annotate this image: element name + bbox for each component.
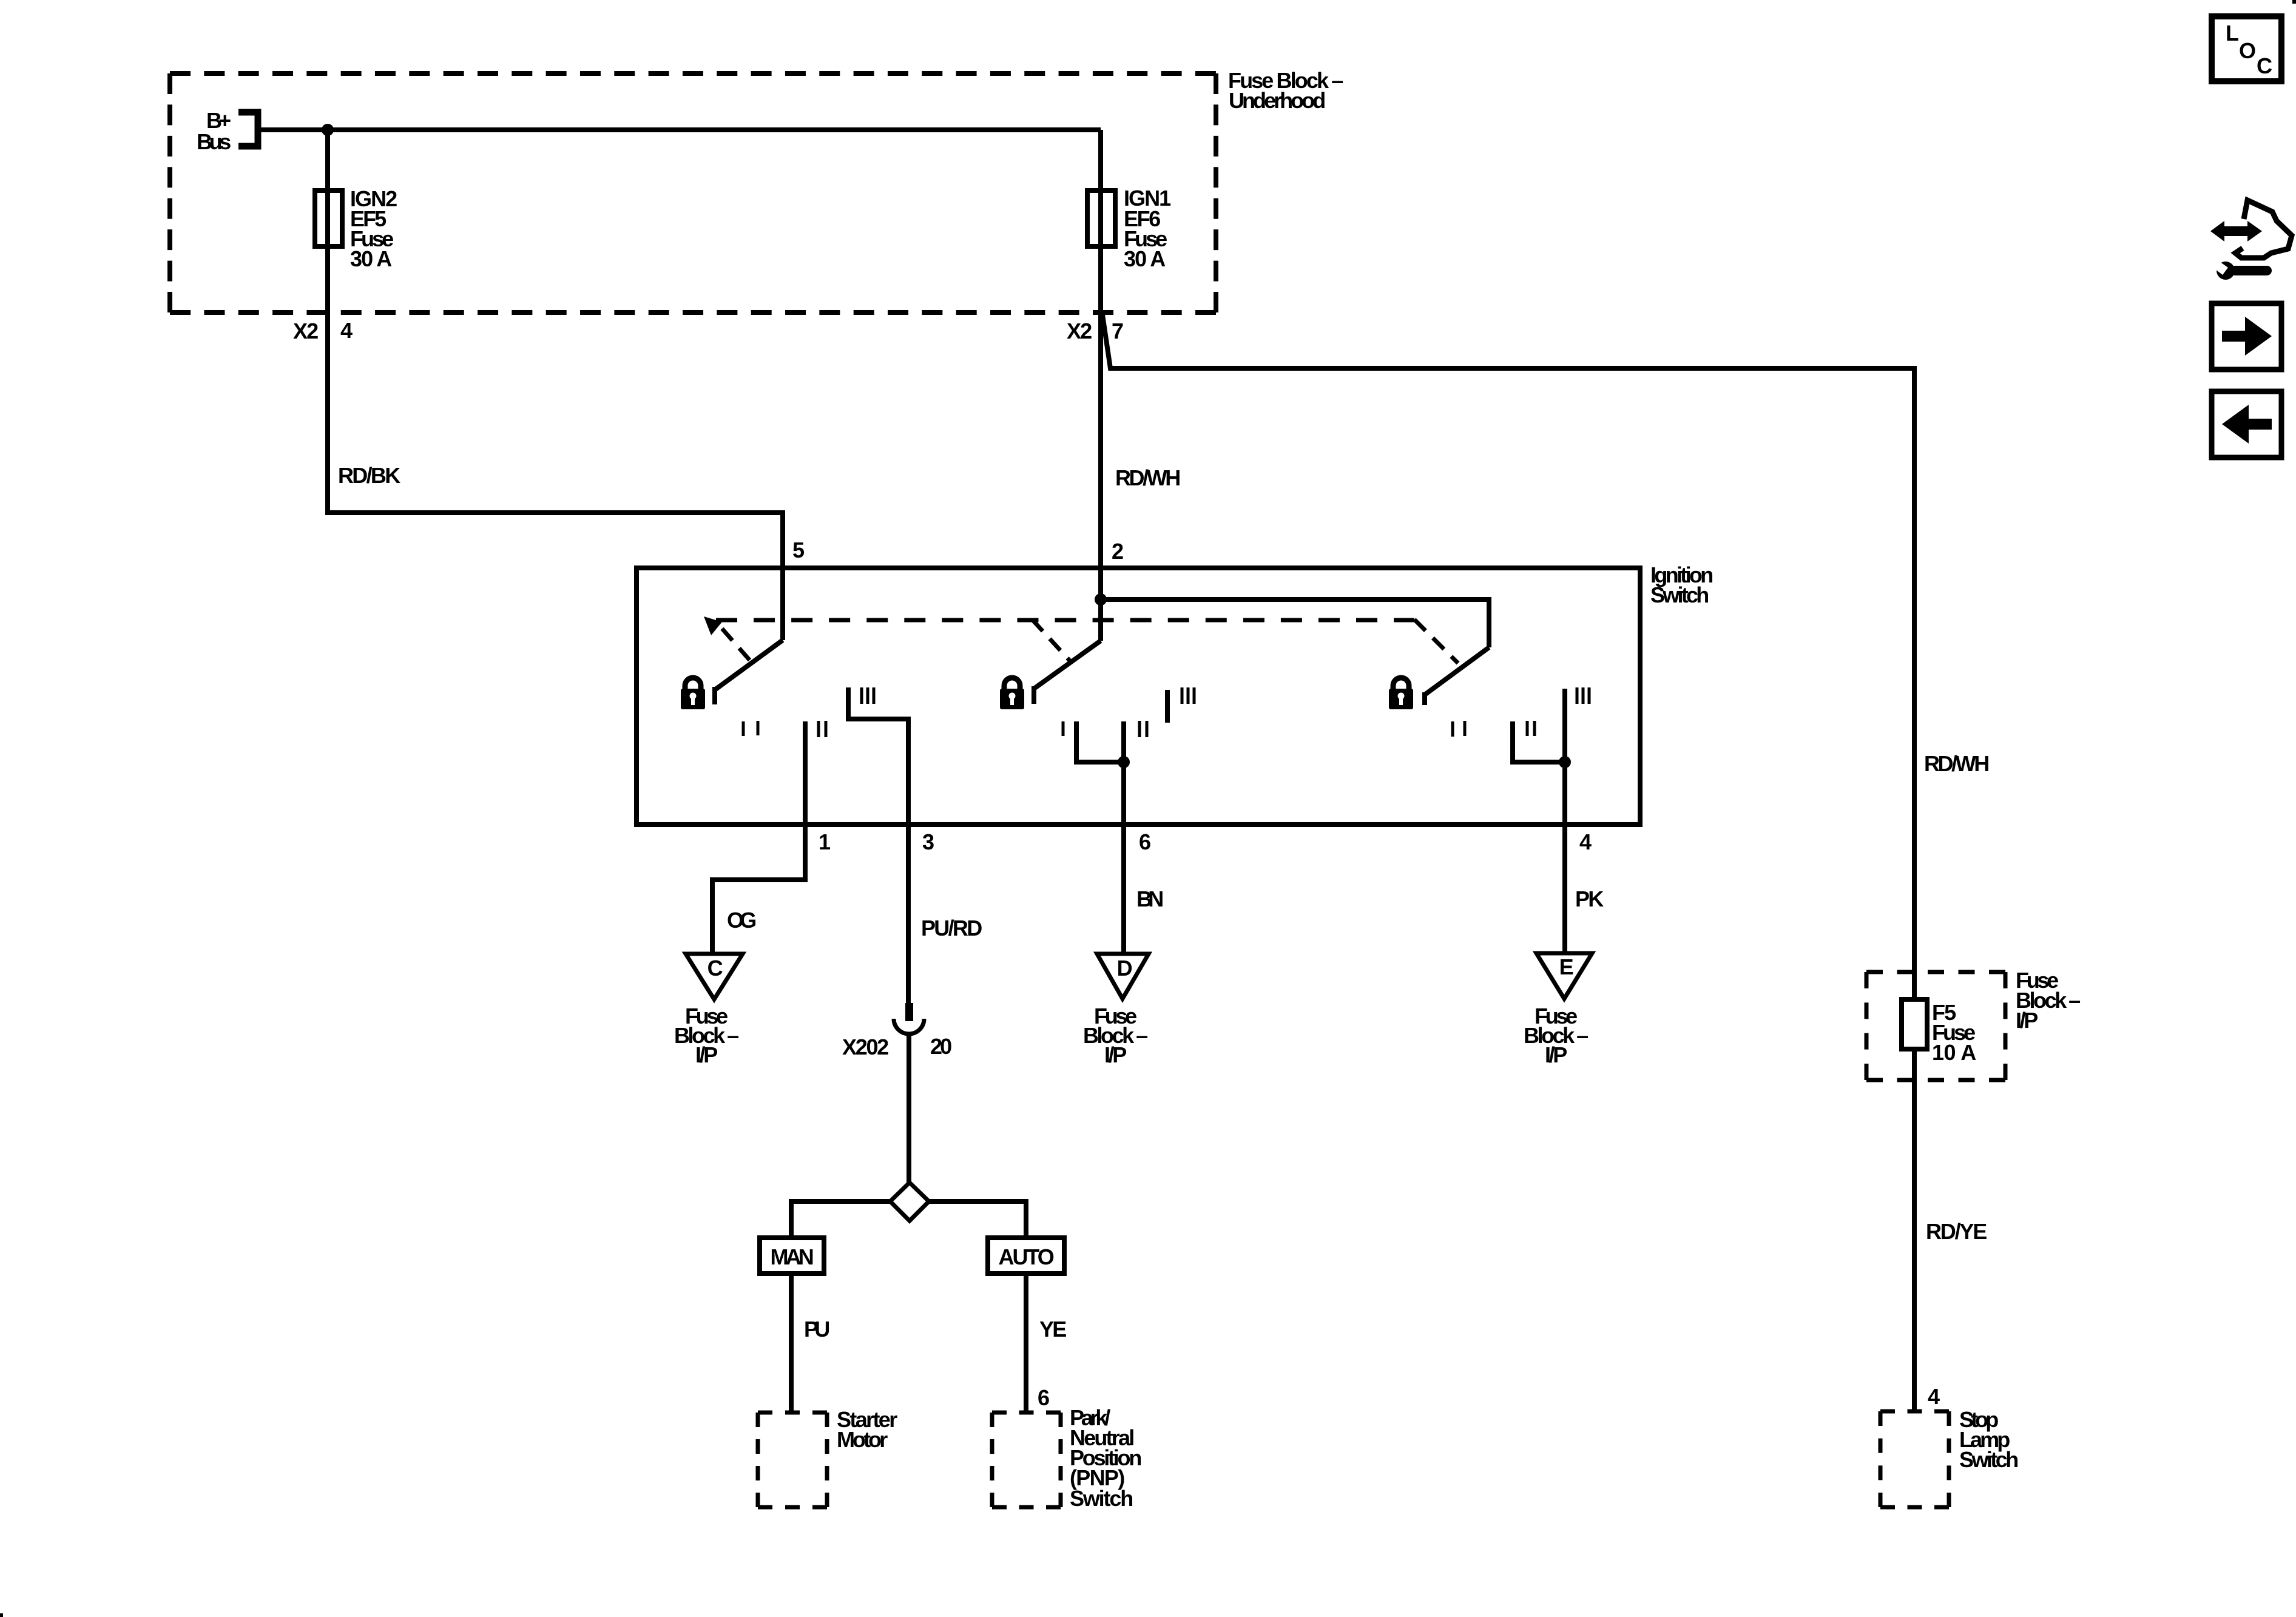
switch C blade <box>1425 647 1489 705</box>
svg-text:30 A: 30 A <box>1124 246 1166 271</box>
svg-text:X2: X2 <box>293 319 318 343</box>
nav icon arrow right box <box>2212 303 2281 370</box>
svg-text:RD/BK: RD/BK <box>338 463 400 488</box>
fuse F5 10A <box>1902 999 1927 1049</box>
label Fuse Block - I/P (D) <box>1083 1004 1147 1067</box>
label Fuse Block - Underhood <box>1228 68 1343 113</box>
mechanical linkage dashed line <box>716 618 1414 623</box>
switch A contact III wire to pin 3 <box>848 687 908 1003</box>
svg-text:5: 5 <box>792 538 805 562</box>
svg-text:RD/YE: RD/YE <box>1926 1219 1987 1244</box>
switch A contact I tick <box>742 721 745 736</box>
svg-text:I/P: I/P <box>2016 1008 2038 1033</box>
switch A blade <box>715 640 783 704</box>
wire IGN2 branch down through fuse to RD/BK run <box>328 130 783 640</box>
B+ Bus terminal bracket <box>238 112 258 146</box>
switch C numeral III <box>1577 687 1589 704</box>
linkage diagonal at switch C <box>1414 619 1458 663</box>
svg-text:10 A: 10 A <box>1932 1040 1976 1065</box>
linkage arrowhead <box>704 616 722 635</box>
svg-text:AUTO: AUTO <box>999 1244 1054 1269</box>
wire AUTO to PNP switch <box>1024 1274 1028 1413</box>
svg-text:20: 20 <box>930 1034 951 1059</box>
vehicle service icon: double arrow <box>2210 200 2292 280</box>
svg-text:OG: OG <box>727 908 756 933</box>
svg-text:7: 7 <box>1112 319 1123 343</box>
label connector X2 pin 4 <box>293 318 353 343</box>
svg-text:D: D <box>1117 956 1132 981</box>
connector triangle D to fuse block I/P <box>1097 954 1149 999</box>
svg-text:C: C <box>707 956 723 981</box>
lock icon A <box>681 678 705 709</box>
label Fuse Block - I/P (C) <box>674 1004 738 1067</box>
svg-text:3: 3 <box>922 829 934 854</box>
switch A numeral III <box>862 687 874 704</box>
label L O C <box>2226 21 2272 78</box>
AUTO box <box>988 1238 1064 1274</box>
label Stop Lamp Switch <box>1959 1407 2018 1472</box>
connector X202 male terminal <box>905 1003 913 1021</box>
Fuse Block - I/P dashed box (F5) <box>1866 972 2005 1080</box>
wire below X202 <box>907 1035 911 1183</box>
switch C numeral I <box>1464 721 1467 736</box>
fuse IGN1 EF6 30A <box>1087 191 1115 246</box>
node junction pin2 <box>1095 593 1107 606</box>
splice diamond <box>890 1183 929 1221</box>
svg-text:X2: X2 <box>1067 319 1092 343</box>
svg-text:Motor: Motor <box>837 1427 888 1452</box>
svg-text:4: 4 <box>340 318 353 343</box>
wire diamond to MAN <box>791 1201 890 1238</box>
svg-text:6: 6 <box>1139 829 1150 854</box>
wire B+ bus horizontal <box>258 127 1101 132</box>
svg-text:I/P: I/P <box>695 1042 717 1067</box>
switch C contact II wire to pin 4 junction <box>1513 721 1565 762</box>
Ignition Switch box <box>636 568 1640 825</box>
svg-text:O: O <box>2239 38 2255 63</box>
label B+ Bus <box>197 108 231 154</box>
label F5 Fuse 10A <box>1932 1000 1976 1065</box>
label Park/Neutral Position (PNP) Switch <box>1070 1405 1141 1511</box>
svg-text:E: E <box>1559 954 1573 979</box>
label Fuse Block - I/P (E) <box>1524 1004 1588 1067</box>
svg-text:RD/WH: RD/WH <box>1924 751 1989 776</box>
switch B blade <box>1034 641 1101 704</box>
switch B contact III stub <box>1165 690 1170 723</box>
nav icon arrow left box <box>2212 391 2281 457</box>
svg-text:X202: X202 <box>842 1035 888 1059</box>
svg-text:I/P: I/P <box>1104 1042 1126 1067</box>
page mark top right <box>2292 0 2296 4</box>
node junction at IGN2 branch <box>322 124 334 136</box>
label Fuse Block - I/P (right) <box>2016 968 2080 1033</box>
svg-text:L: L <box>2226 21 2238 46</box>
arrow left <box>2222 405 2272 444</box>
LOC icon box <box>2212 16 2281 81</box>
switch B numeral II <box>1140 721 1147 737</box>
svg-text:Bus: Bus <box>197 129 231 154</box>
Park/Neutral Position (PNP) Switch dashed box <box>992 1413 1061 1507</box>
switch B contact II wire to pin 6 and fuse block D <box>1121 721 1126 954</box>
switch C contact I tick <box>1451 721 1454 737</box>
label Ignition Switch <box>1650 562 1713 607</box>
switch B numeral I <box>1062 721 1065 736</box>
MAN box <box>760 1238 824 1274</box>
switch A numeral I <box>757 721 760 735</box>
arrow right <box>2222 317 2272 356</box>
connector X202 female terminal <box>894 1019 924 1034</box>
switch A numeral II <box>819 721 826 737</box>
label Starter Motor <box>837 1407 897 1452</box>
svg-text:6: 6 <box>1038 1385 1049 1410</box>
lock icon C <box>1389 678 1413 709</box>
svg-text:MAN: MAN <box>771 1244 814 1269</box>
svg-text:I/P: I/P <box>1545 1042 1567 1067</box>
node junction pin6 <box>1118 756 1130 768</box>
Fuse Block - Underhood dashed box <box>170 73 1216 312</box>
lock icon B <box>1000 678 1024 709</box>
vehicle service icon: wrench <box>2217 262 2235 280</box>
wire F5 to stop lamp switch <box>1912 1049 1917 1411</box>
switch B contact I wire to pin 6 junction <box>1076 721 1124 762</box>
wire link pin2 to switch C <box>1101 599 1489 647</box>
switch A contact II wire to pin 1 with jog to fuse block C <box>712 721 805 954</box>
svg-text:1: 1 <box>819 829 831 854</box>
svg-text:PK: PK <box>1575 886 1604 911</box>
svg-text:Underhood: Underhood <box>1229 88 1325 113</box>
linkage diagonal at switch A <box>722 629 756 667</box>
page mark bottom left <box>0 1613 3 1617</box>
connector triangle E to fuse block I/P <box>1536 953 1592 999</box>
svg-text:PU: PU <box>804 1317 829 1342</box>
switch C contact III wire to pin 4 and fuse block E <box>1562 689 1567 953</box>
switch B numeral III <box>1182 687 1194 704</box>
svg-text:RD/WH: RD/WH <box>1115 465 1180 490</box>
svg-text:YE: YE <box>1039 1317 1066 1342</box>
svg-text:30 A: 30 A <box>350 246 392 271</box>
svg-text:BN: BN <box>1136 886 1163 911</box>
svg-text:C: C <box>2257 53 2272 78</box>
wire branch RD/WH to right column <box>1102 315 1914 999</box>
fuse IGN2 EF5 30A <box>315 191 342 246</box>
linkage diagonal at switch B <box>1032 619 1071 662</box>
svg-text:Switch: Switch <box>1650 582 1709 607</box>
node junction pin4 <box>1559 756 1571 768</box>
svg-text:4: 4 <box>1928 1384 1940 1409</box>
svg-text:2: 2 <box>1112 539 1123 564</box>
label IGN1 EF6 Fuse 30A <box>1124 186 1171 271</box>
connector triangle C to fuse block I/P <box>686 954 743 999</box>
svg-text:4: 4 <box>1579 829 1592 854</box>
wire IGN1 feed from bus down through fuse to ignition switch pin 2 <box>1098 130 1103 641</box>
Stop Lamp Switch dashed box <box>1880 1411 1949 1507</box>
svg-text:PU/RD: PU/RD <box>921 916 982 940</box>
wire MAN to starter motor <box>789 1274 794 1413</box>
vehicle service icon: body outline <box>2235 200 2292 258</box>
label IGN2 EF5 Fuse 30A <box>350 186 397 271</box>
Starter Motor dashed box <box>758 1413 827 1507</box>
svg-text:Switch: Switch <box>1070 1486 1133 1511</box>
switch C numeral II <box>1527 721 1535 736</box>
wire diamond to AUTO <box>929 1201 1026 1238</box>
svg-text:Switch: Switch <box>1959 1447 2018 1472</box>
label connector X2 pin 7 <box>1067 319 1123 343</box>
